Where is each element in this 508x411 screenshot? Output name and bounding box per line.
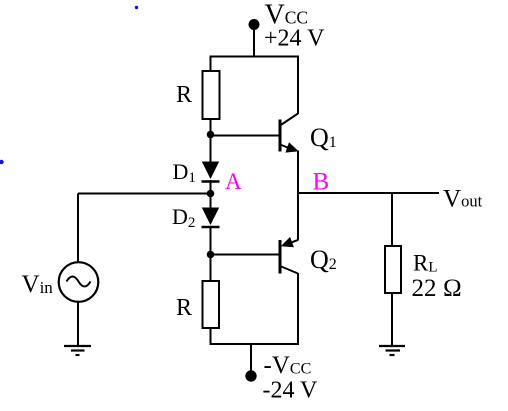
svg-text:+24 V: +24 V xyxy=(264,26,325,52)
svg-text:R: R xyxy=(176,295,192,321)
svg-text:A: A xyxy=(225,169,242,194)
svg-text:22 Ω: 22 Ω xyxy=(412,275,462,302)
svg-text:R: R xyxy=(176,82,192,108)
svg-text:B: B xyxy=(313,169,330,196)
svg-text:-24 V: -24 V xyxy=(263,378,319,404)
